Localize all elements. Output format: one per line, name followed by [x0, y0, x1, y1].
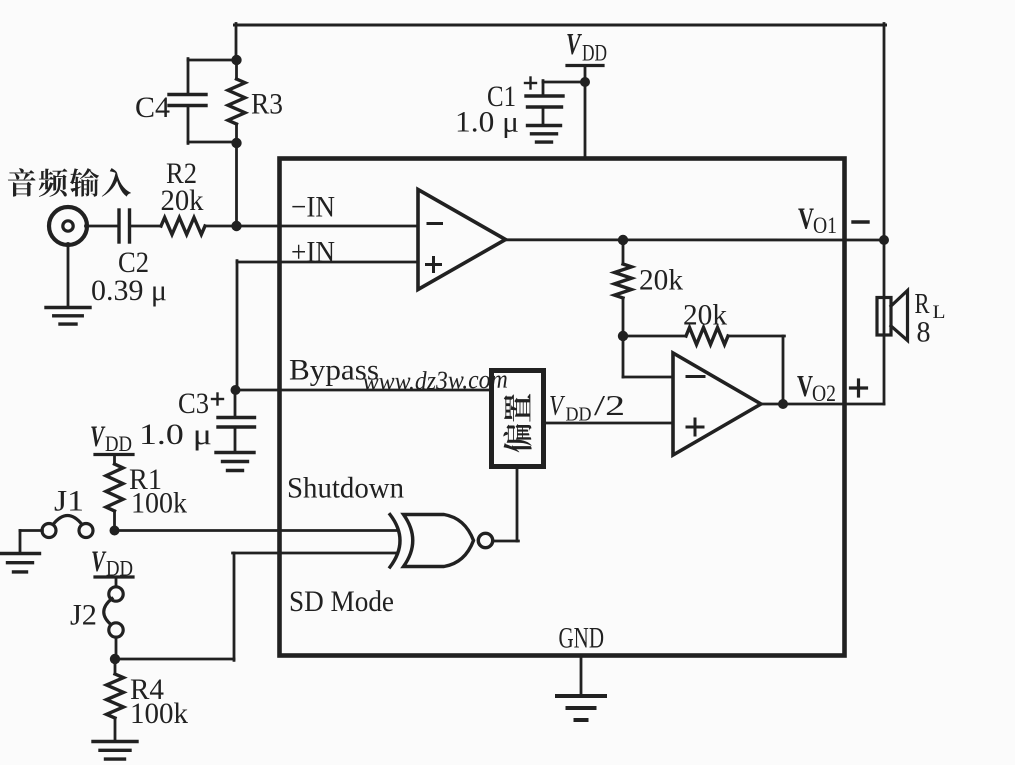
bias block 偏置 [492, 371, 544, 467]
resistor R3 [235, 60, 238, 79]
jumper J1 [42, 524, 56, 538]
node: R3/C4 bottom junction [231, 138, 241, 148]
ground: audio input [67, 244, 70, 308]
svg-text:DD: DD [105, 431, 132, 456]
svg-text:O1: O1 [813, 213, 837, 238]
svg-text:0.39 μ: 0.39 μ [91, 274, 167, 307]
label C1 plus [525, 82, 536, 84]
svg-text:www.dz3w.com: www.dz3w.com [363, 364, 509, 396]
wire: R3 bottom to -IN node [235, 143, 238, 227]
power rail VDD bar [567, 64, 603, 67]
label C3 plus [212, 398, 223, 400]
connector J_in (audio input jack) [49, 207, 87, 245]
power rail VDD bar (J2) [95, 575, 133, 578]
svg-text:V: V [797, 368, 813, 403]
svg-text:20k: 20k [683, 299, 727, 332]
svg-text:GND: GND [559, 622, 605, 655]
wire: shutdown input [115, 529, 398, 532]
wire: J1 to ground [20, 529, 42, 532]
resistor R4 [114, 659, 117, 674]
node: bypass/C3 junction [231, 385, 241, 395]
wire: U2 output to rail [761, 403, 884, 406]
node: VDD/C1 junction [580, 77, 590, 87]
node: -IN junction [231, 221, 241, 231]
wire: R2 to -IN [205, 225, 418, 228]
op-amp U2 [673, 353, 761, 455]
wire: U1 output to right rail [504, 238, 884, 241]
svg-text:8: 8 [917, 316, 931, 349]
wire: C1 to VDD [543, 81, 585, 84]
svg-text:20k: 20k [639, 264, 683, 297]
svg-text:100k: 100k [130, 697, 188, 730]
resistor 20k (vertical) [622, 240, 625, 264]
power rail VDD bar (J1) [95, 453, 133, 456]
jumper J2 [115, 577, 118, 588]
wire: bias block to XNOR output [516, 466, 519, 541]
node: J1/R1 junction [110, 526, 120, 536]
capacitor C1 [526, 94, 563, 97]
label VO1 minus sign [853, 220, 868, 223]
svg-text:100k: 100k [131, 487, 187, 520]
svg-text:20k: 20k [161, 184, 204, 217]
XNOR gate U3 [404, 515, 474, 567]
wire: junction to U2 inverting input [622, 336, 625, 377]
svg-text:R3: R3 [251, 88, 283, 121]
wire: bypass line [236, 389, 492, 392]
resistor R2 [161, 218, 205, 235]
capacitor C3 [234, 390, 237, 418]
ground: IC box [557, 694, 605, 698]
svg-text:C3: C3 [178, 387, 209, 420]
label 音频输入 (audio input) [8, 168, 36, 196]
ground: R4 [93, 740, 137, 743]
ground: C1 [528, 124, 561, 127]
wire: rail VO1 to VO2 (through speaker) [883, 240, 886, 404]
ground: C3 [216, 451, 254, 454]
svg-text:−IN: −IN [291, 191, 335, 224]
resistor 20k (feedback) [623, 335, 686, 338]
svg-text:1.0 μ: 1.0 μ [455, 106, 519, 139]
capacitor C4 [188, 59, 237, 62]
IC package box [280, 159, 845, 656]
svg-text:/2: /2 [594, 390, 625, 422]
svg-text:1.0 μ: 1.0 μ [139, 418, 212, 451]
svg-text:C4: C4 [135, 91, 170, 124]
svg-text:V: V [91, 545, 107, 578]
node: R3/C4 top junction [231, 55, 241, 65]
svg-text:Shutdown: Shutdown [287, 472, 404, 505]
svg-text:V: V [566, 26, 582, 61]
svg-text:J1: J1 [54, 485, 84, 518]
resistor R1 [113, 455, 116, 465]
svg-text:V: V [798, 201, 814, 236]
svg-text:V: V [90, 420, 106, 453]
speaker RL [877, 298, 891, 336]
capacitor C2 [117, 210, 120, 242]
svg-text:L: L [933, 302, 946, 323]
wire: top feedback rail [235, 24, 886, 27]
svg-text:+IN: +IN [291, 236, 335, 269]
svg-text:SD Mode: SD Mode [289, 585, 394, 618]
svg-text:J2: J2 [70, 599, 97, 632]
wire: top rail left drop [235, 24, 238, 63]
wire: VDD/2 to U2 +input [543, 422, 673, 425]
wire: right rail from top to VO1 [883, 24, 886, 242]
node: J2/R4 junction [110, 654, 120, 664]
wire: VDD to IC box top [584, 66, 587, 159]
svg-text:DD: DD [582, 41, 607, 66]
wire: SD mode input [115, 658, 234, 661]
svg-text:V: V [549, 390, 566, 422]
node: VO1 rail junction [879, 235, 889, 245]
node: 20k junction [618, 331, 628, 341]
label VO2 plus sign [851, 386, 867, 389]
wire: IC GND pin [580, 656, 583, 696]
ground: J1 [1, 552, 40, 555]
op-amp U1 [418, 190, 506, 290]
svg-text:O2: O2 [812, 381, 836, 406]
node: U2 output junction [778, 399, 788, 409]
wire: +IN line [237, 261, 418, 264]
wire: jack to C2 [86, 225, 120, 228]
node: VO1 / 20k junction [618, 235, 628, 245]
wire: +IN node down to bypass node [236, 261, 239, 391]
